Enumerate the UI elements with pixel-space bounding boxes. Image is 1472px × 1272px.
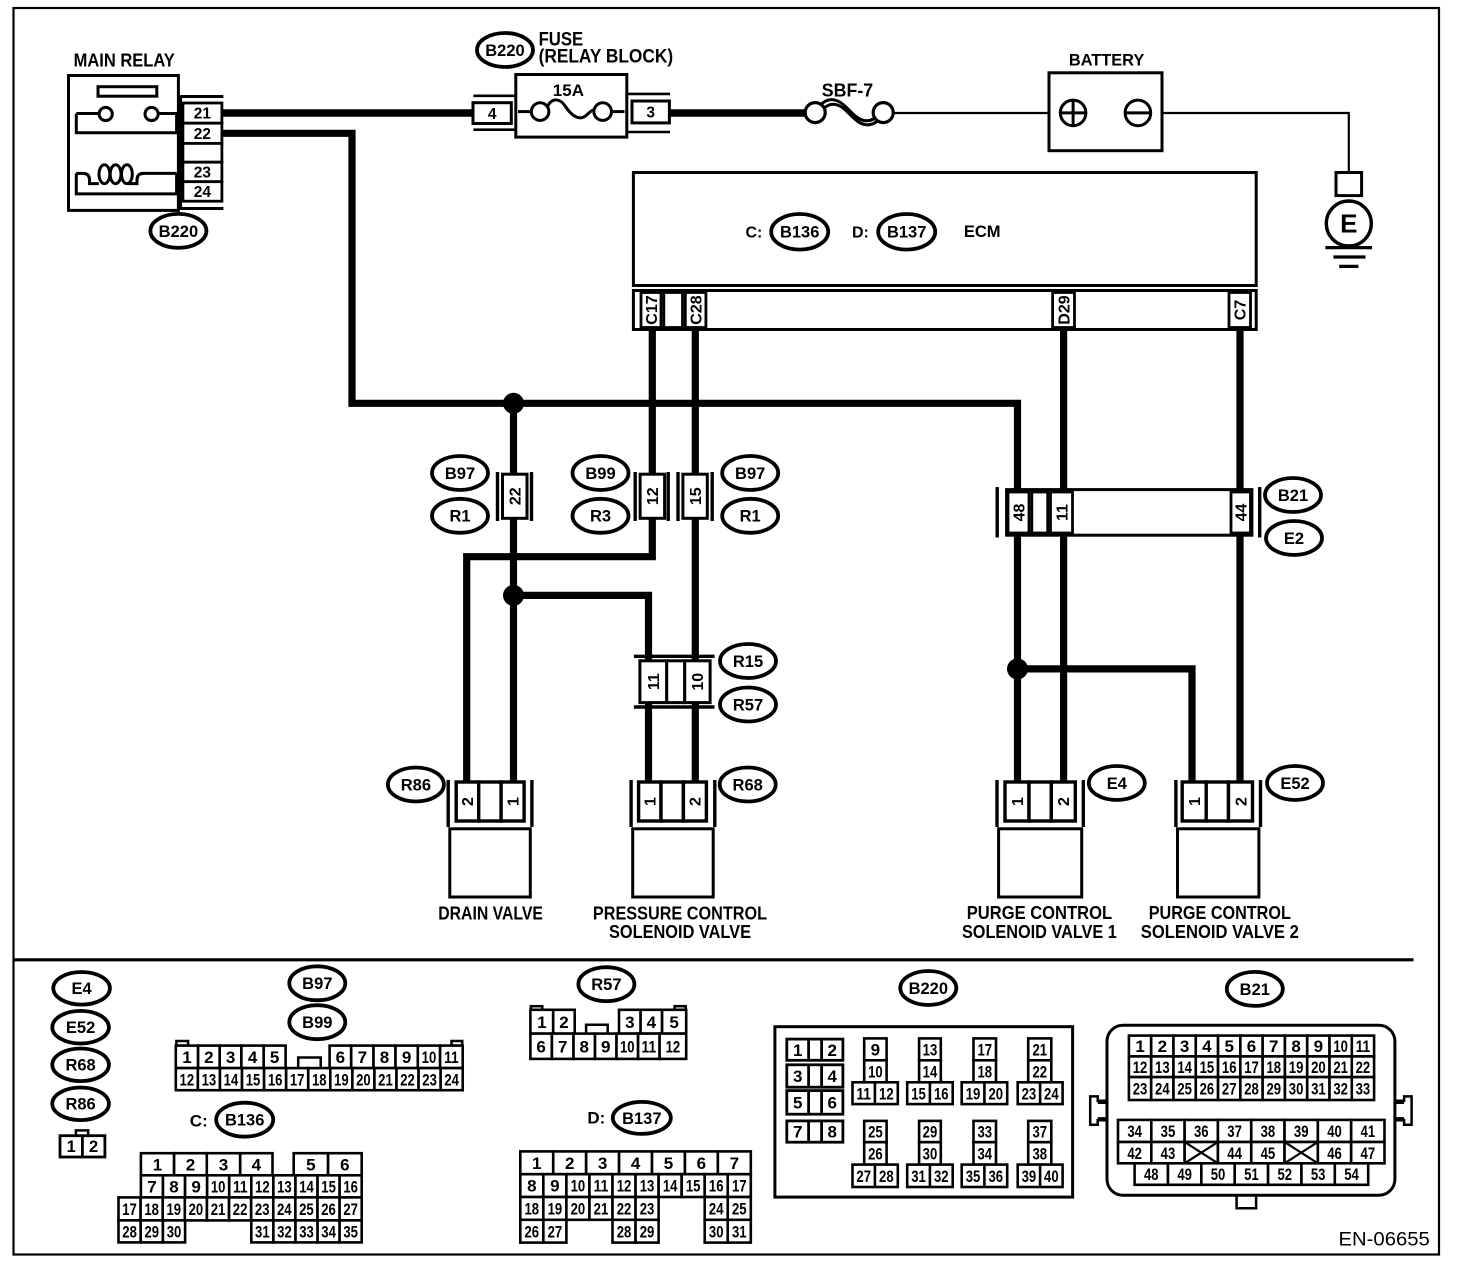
svg-text:43: 43 bbox=[1161, 1144, 1176, 1163]
svg-text:R86: R86 bbox=[401, 776, 431, 794]
svg-text:9: 9 bbox=[601, 1037, 610, 1056]
svg-text:D:: D: bbox=[852, 225, 869, 242]
svg-text:16: 16 bbox=[268, 1070, 283, 1089]
svg-text:12: 12 bbox=[879, 1084, 894, 1103]
svg-text:28: 28 bbox=[617, 1222, 632, 1241]
svg-text:R68: R68 bbox=[65, 1057, 95, 1075]
connector label E52 bbox=[1267, 766, 1323, 800]
svg-text:22: 22 bbox=[508, 487, 525, 505]
svg-text:10: 10 bbox=[620, 1037, 635, 1056]
svg-text:6: 6 bbox=[1247, 1037, 1256, 1056]
svg-text:C28: C28 bbox=[688, 295, 705, 324]
svg-text:8: 8 bbox=[1291, 1037, 1300, 1056]
svg-text:2: 2 bbox=[186, 1155, 195, 1174]
connector label R1 bbox=[722, 499, 778, 533]
svg-text:11: 11 bbox=[1054, 504, 1071, 521]
svg-text:36: 36 bbox=[1194, 1122, 1209, 1141]
wire: ECM D29 through B21 pin 11 to purge valve 1 pin 2 bbox=[1060, 329, 1067, 783]
svg-text:1: 1 bbox=[182, 1048, 191, 1067]
svg-text:PURGE CONTROL: PURGE CONTROL bbox=[1149, 902, 1291, 923]
fuse element bbox=[518, 110, 531, 113]
svg-text:36: 36 bbox=[989, 1167, 1004, 1186]
wire: relay pin 22 to main feed bbox=[222, 130, 352, 404]
svg-text:2: 2 bbox=[1056, 797, 1073, 806]
svg-text:R15: R15 bbox=[733, 653, 763, 671]
svg-text:23: 23 bbox=[1133, 1080, 1148, 1099]
svg-text:21: 21 bbox=[1032, 1040, 1047, 1059]
svg-text:R57: R57 bbox=[733, 696, 763, 714]
svg-text:5: 5 bbox=[664, 1154, 673, 1173]
svg-text:12: 12 bbox=[617, 1177, 632, 1196]
svg-text:28: 28 bbox=[879, 1167, 894, 1186]
svg-text:2: 2 bbox=[1158, 1037, 1167, 1056]
wire: SBF-7 to battery positive bbox=[893, 112, 1062, 114]
svg-text:B220: B220 bbox=[909, 980, 948, 998]
svg-text:24: 24 bbox=[1044, 1084, 1059, 1103]
inline connector pin 10 bbox=[685, 661, 710, 703]
svg-text:7: 7 bbox=[730, 1154, 739, 1173]
svg-text:24: 24 bbox=[444, 1070, 459, 1089]
svg-text:3: 3 bbox=[219, 1155, 228, 1174]
svg-text:18: 18 bbox=[144, 1200, 159, 1219]
svg-text:51: 51 bbox=[1244, 1165, 1259, 1184]
svg-text:21: 21 bbox=[594, 1200, 609, 1219]
svg-text:39: 39 bbox=[1022, 1167, 1037, 1186]
svg-text:17: 17 bbox=[732, 1177, 747, 1196]
svg-text:PURGE CONTROL: PURGE CONTROL bbox=[967, 902, 1112, 923]
svg-text:7: 7 bbox=[558, 1037, 567, 1056]
svg-text:35: 35 bbox=[343, 1223, 358, 1242]
svg-text:21: 21 bbox=[1333, 1058, 1348, 1077]
svg-text:C:: C: bbox=[190, 1111, 208, 1130]
svg-text:22: 22 bbox=[194, 126, 211, 143]
svg-text:B97: B97 bbox=[735, 465, 765, 483]
svg-text:15: 15 bbox=[321, 1177, 336, 1196]
svg-text:41: 41 bbox=[1361, 1122, 1376, 1141]
svg-text:37: 37 bbox=[1227, 1122, 1242, 1141]
svg-text:4: 4 bbox=[631, 1154, 641, 1173]
svg-text:14: 14 bbox=[224, 1070, 239, 1089]
wire: junction to connector 11 / pressure valve pin 1 bbox=[514, 592, 649, 782]
battery negative terminal bbox=[1125, 100, 1151, 126]
svg-text:12: 12 bbox=[666, 1037, 681, 1056]
svg-text:48: 48 bbox=[1144, 1165, 1159, 1184]
svg-text:26: 26 bbox=[1200, 1080, 1215, 1099]
svg-text:8: 8 bbox=[580, 1037, 589, 1056]
svg-text:27: 27 bbox=[856, 1167, 871, 1186]
svg-text:6: 6 bbox=[697, 1154, 706, 1173]
connector label B97 bbox=[722, 456, 778, 490]
svg-text:45: 45 bbox=[1261, 1144, 1276, 1163]
svg-text:B21: B21 bbox=[1240, 981, 1270, 999]
svg-text:R1: R1 bbox=[740, 508, 761, 526]
svg-text:29: 29 bbox=[640, 1222, 655, 1241]
connector label E4 bbox=[1089, 766, 1145, 800]
svg-text:C17: C17 bbox=[644, 295, 661, 324]
svg-text:8: 8 bbox=[827, 1123, 836, 1142]
svg-text:23: 23 bbox=[194, 165, 212, 182]
svg-text:47: 47 bbox=[1361, 1144, 1376, 1163]
svg-text:13: 13 bbox=[202, 1070, 217, 1089]
svg-text:44: 44 bbox=[1233, 504, 1250, 522]
svg-text:4: 4 bbox=[248, 1048, 258, 1067]
svg-text:17: 17 bbox=[122, 1200, 137, 1219]
reference label R68 bbox=[52, 1049, 109, 1082]
wire: main feed horizontal to ECM B21 pin 48 branch bbox=[348, 400, 1017, 783]
connector label R68 bbox=[720, 768, 776, 802]
drain valve connector R86 bbox=[447, 780, 450, 827]
svg-text:9: 9 bbox=[402, 1048, 411, 1067]
svg-text:17: 17 bbox=[1244, 1058, 1259, 1077]
svg-text:19: 19 bbox=[966, 1084, 981, 1103]
svg-text:3: 3 bbox=[625, 1013, 634, 1032]
svg-text:E4: E4 bbox=[1107, 775, 1128, 793]
svg-text:23: 23 bbox=[1022, 1084, 1037, 1103]
svg-text:9: 9 bbox=[1314, 1037, 1323, 1056]
svg-text:12: 12 bbox=[1133, 1058, 1148, 1077]
svg-text:28: 28 bbox=[1244, 1080, 1259, 1099]
connector B21/E2 strip bbox=[1007, 490, 1252, 536]
svg-text:29: 29 bbox=[145, 1223, 160, 1242]
connector label B97 bbox=[432, 456, 488, 490]
svg-text:10: 10 bbox=[1333, 1037, 1348, 1056]
fuse F1 box bbox=[516, 75, 627, 138]
ECM blank pin cell bbox=[664, 293, 683, 328]
svg-text:46: 46 bbox=[1327, 1144, 1342, 1163]
svg-text:50: 50 bbox=[1211, 1165, 1226, 1184]
connector face D B137 31-pin bbox=[520, 1151, 553, 1174]
connector label R1 bbox=[432, 499, 488, 533]
svg-text:26: 26 bbox=[321, 1200, 336, 1219]
svg-text:EN-06655: EN-06655 bbox=[1339, 1229, 1430, 1250]
svg-text:B136: B136 bbox=[780, 224, 819, 242]
B21 shell right tab bbox=[1395, 1096, 1412, 1124]
ECM pin D29 bbox=[1053, 293, 1075, 328]
reference label R86 bbox=[52, 1088, 109, 1121]
strip pin 48 bbox=[1008, 492, 1029, 533]
ground symbol bbox=[1325, 246, 1372, 249]
svg-text:B99: B99 bbox=[585, 465, 615, 483]
svg-text:34: 34 bbox=[977, 1145, 992, 1164]
wire: branch to purge valve 2 pin 1 bbox=[1018, 665, 1193, 783]
relay coil winding bbox=[76, 173, 176, 183]
svg-text:5: 5 bbox=[306, 1155, 315, 1174]
inline connector pin 11 bbox=[640, 661, 667, 703]
svg-text:5: 5 bbox=[1224, 1037, 1233, 1056]
svg-text:39: 39 bbox=[1294, 1122, 1309, 1141]
fuse pin 4 bracket bbox=[473, 95, 517, 98]
svg-text:18: 18 bbox=[1266, 1058, 1281, 1077]
connector face B97/B99 24-pin bbox=[176, 1041, 188, 1046]
svg-text:3: 3 bbox=[598, 1154, 607, 1173]
svg-text:9: 9 bbox=[871, 1040, 880, 1059]
svg-text:C7: C7 bbox=[1232, 300, 1249, 321]
svg-text:23: 23 bbox=[640, 1200, 655, 1219]
relay top bar bbox=[98, 87, 157, 97]
ECM connector label B136 bbox=[771, 214, 828, 250]
svg-text:B136: B136 bbox=[225, 1112, 264, 1130]
svg-text:31: 31 bbox=[1311, 1080, 1326, 1099]
svg-text:3: 3 bbox=[793, 1067, 802, 1086]
svg-text:22: 22 bbox=[1032, 1062, 1047, 1081]
svg-text:2: 2 bbox=[1233, 797, 1250, 806]
connector face B21 54-pin shell bbox=[1107, 1025, 1395, 1195]
svg-text:8: 8 bbox=[527, 1177, 536, 1196]
inline connector middle cell bbox=[667, 661, 685, 703]
strip blank cell bbox=[1032, 492, 1048, 533]
svg-text:10: 10 bbox=[571, 1177, 586, 1196]
svg-text:30: 30 bbox=[167, 1223, 182, 1242]
svg-text:16: 16 bbox=[1222, 1058, 1237, 1077]
svg-text:30: 30 bbox=[923, 1145, 938, 1164]
svg-text:17: 17 bbox=[977, 1040, 992, 1059]
battery box bbox=[1049, 73, 1162, 151]
svg-text:35: 35 bbox=[1161, 1122, 1176, 1141]
svg-text:38: 38 bbox=[1261, 1122, 1276, 1141]
svg-text:B137: B137 bbox=[887, 224, 926, 242]
svg-text:26: 26 bbox=[868, 1145, 883, 1164]
relay connector label B220 bbox=[150, 214, 206, 248]
svg-text:13: 13 bbox=[640, 1177, 655, 1196]
svg-text:MAIN RELAY: MAIN RELAY bbox=[74, 50, 176, 71]
svg-text:6: 6 bbox=[827, 1094, 836, 1113]
svg-text:25: 25 bbox=[299, 1200, 314, 1219]
svg-text:16: 16 bbox=[934, 1084, 949, 1103]
svg-text:11: 11 bbox=[594, 1177, 609, 1196]
svg-text:11: 11 bbox=[856, 1084, 871, 1103]
svg-text:6: 6 bbox=[536, 1037, 545, 1056]
svg-text:22: 22 bbox=[233, 1200, 248, 1219]
svg-text:16: 16 bbox=[709, 1177, 724, 1196]
relay pin box 24 bbox=[183, 182, 222, 202]
ECM pin C17 bbox=[641, 293, 661, 328]
svg-text:19: 19 bbox=[334, 1070, 349, 1089]
svg-text:23: 23 bbox=[422, 1070, 437, 1089]
node: junction purge valve 1 / purge valve 2 branch bbox=[1007, 658, 1028, 679]
ECM pin C28 bbox=[685, 293, 706, 328]
svg-text:49: 49 bbox=[1177, 1165, 1192, 1184]
svg-text:15: 15 bbox=[911, 1084, 926, 1103]
svg-text:20: 20 bbox=[356, 1070, 371, 1089]
svg-text:18: 18 bbox=[312, 1070, 327, 1089]
svg-text:12: 12 bbox=[255, 1177, 270, 1196]
node: junction drain/pressure branch bbox=[503, 585, 524, 606]
fuse pin 4 box bbox=[473, 103, 511, 124]
svg-text:31: 31 bbox=[732, 1222, 747, 1241]
svg-text:11: 11 bbox=[444, 1048, 459, 1067]
svg-text:32: 32 bbox=[1333, 1080, 1348, 1099]
svg-text:1: 1 bbox=[153, 1155, 162, 1174]
connector face R57 12-pin bbox=[531, 1006, 542, 1010]
svg-text:52: 52 bbox=[1277, 1165, 1292, 1184]
svg-text:R86: R86 bbox=[65, 1096, 95, 1114]
svg-text:20: 20 bbox=[989, 1084, 1004, 1103]
relay connector B220 pin strip bracket bbox=[181, 97, 224, 209]
svg-text:2: 2 bbox=[559, 1013, 568, 1032]
wire: ECM C28 down through connectors 15 and 10 to pressure valve pin 2 bbox=[692, 329, 699, 782]
battery positive terminal bbox=[1060, 100, 1086, 126]
svg-text:1: 1 bbox=[1187, 797, 1204, 806]
purge control solenoid valve 1 connector E4 bbox=[995, 780, 998, 827]
svg-text:24: 24 bbox=[1155, 1080, 1170, 1099]
svg-text:1: 1 bbox=[537, 1013, 546, 1032]
strip pin 11 bbox=[1051, 492, 1073, 533]
svg-text:2: 2 bbox=[688, 797, 705, 806]
svg-text:30: 30 bbox=[709, 1222, 724, 1241]
svg-text:15A: 15A bbox=[553, 81, 584, 100]
inline connector pin 12 bbox=[634, 472, 637, 521]
connector B21/E2 strip bracket bbox=[996, 487, 999, 538]
svg-text:21: 21 bbox=[378, 1070, 393, 1089]
svg-text:R68: R68 bbox=[733, 776, 763, 794]
svg-text:23: 23 bbox=[255, 1200, 270, 1219]
svg-text:E4: E4 bbox=[72, 980, 93, 998]
svg-text:B21: B21 bbox=[1278, 487, 1308, 505]
svg-text:4: 4 bbox=[252, 1155, 262, 1174]
wire: ECM C7 through B21 pin 44 to purge valve 2 pin 2 bbox=[1236, 329, 1243, 783]
svg-text:21: 21 bbox=[194, 106, 212, 123]
svg-text:E: E bbox=[1340, 209, 1357, 239]
svg-text:40: 40 bbox=[1044, 1167, 1059, 1186]
wire: fuse pin 3 to SBF-7 bbox=[668, 109, 806, 117]
svg-text:1: 1 bbox=[643, 797, 660, 806]
svg-text:10: 10 bbox=[211, 1177, 226, 1196]
svg-text:R3: R3 bbox=[590, 508, 611, 526]
svg-text:22: 22 bbox=[617, 1200, 632, 1219]
svg-text:13: 13 bbox=[923, 1040, 938, 1059]
B21 shell bottom tab bbox=[1237, 1195, 1257, 1208]
svg-text:B220: B220 bbox=[159, 223, 198, 241]
svg-text:21: 21 bbox=[211, 1200, 226, 1219]
fusible link SBF-7 bbox=[820, 100, 884, 121]
relay U1 box bbox=[69, 76, 179, 211]
svg-text:15: 15 bbox=[246, 1070, 261, 1089]
svg-text:24: 24 bbox=[277, 1200, 292, 1219]
svg-text:B97: B97 bbox=[445, 465, 475, 483]
svg-text:2: 2 bbox=[827, 1041, 836, 1060]
svg-text:34: 34 bbox=[321, 1223, 336, 1242]
svg-text:SOLENOID VALVE 1: SOLENOID VALVE 1 bbox=[962, 921, 1117, 942]
svg-text:C:: C: bbox=[746, 225, 763, 242]
svg-text:25: 25 bbox=[732, 1200, 747, 1219]
reference label E4 bbox=[53, 972, 110, 1005]
svg-text:25: 25 bbox=[868, 1123, 883, 1142]
svg-text:12: 12 bbox=[645, 487, 662, 505]
connector label R15 bbox=[720, 644, 776, 678]
svg-text:4: 4 bbox=[827, 1067, 837, 1086]
svg-text:14: 14 bbox=[663, 1177, 678, 1196]
svg-text:E52: E52 bbox=[66, 1019, 95, 1037]
svg-text:54: 54 bbox=[1344, 1165, 1359, 1184]
svg-text:R57: R57 bbox=[591, 976, 621, 994]
svg-text:5: 5 bbox=[669, 1013, 678, 1032]
svg-text:15: 15 bbox=[1200, 1058, 1215, 1077]
svg-text:R1: R1 bbox=[449, 508, 470, 526]
svg-text:37: 37 bbox=[1032, 1123, 1047, 1142]
relay pin box blank bbox=[183, 143, 222, 162]
svg-text:1: 1 bbox=[67, 1138, 76, 1156]
svg-text:7: 7 bbox=[147, 1177, 156, 1196]
section divider bbox=[14, 958, 1414, 961]
svg-text:DRAIN VALVE: DRAIN VALVE bbox=[438, 902, 543, 923]
svg-text:12: 12 bbox=[180, 1070, 195, 1089]
svg-text:BATTERY: BATTERY bbox=[1069, 52, 1144, 70]
svg-text:8: 8 bbox=[169, 1177, 178, 1196]
svg-text:32: 32 bbox=[277, 1223, 292, 1242]
svg-text:48: 48 bbox=[1011, 504, 1028, 522]
svg-text:5: 5 bbox=[270, 1048, 279, 1067]
svg-text:7: 7 bbox=[1269, 1037, 1278, 1056]
svg-text:38: 38 bbox=[1032, 1145, 1047, 1164]
svg-text:13: 13 bbox=[1155, 1058, 1170, 1077]
svg-text:3: 3 bbox=[646, 104, 655, 121]
connector label R86 bbox=[388, 768, 444, 802]
ground E circle bbox=[1326, 201, 1371, 246]
svg-text:D29: D29 bbox=[1056, 295, 1073, 324]
svg-text:3: 3 bbox=[1180, 1037, 1189, 1056]
wire: branch through connector 22 down to drain valve pin 1 bbox=[510, 403, 517, 782]
connector label R3 bbox=[573, 499, 629, 533]
svg-text:40: 40 bbox=[1327, 1122, 1342, 1141]
svg-text:SOLENOID VALVE: SOLENOID VALVE bbox=[609, 921, 751, 942]
svg-text:B99: B99 bbox=[302, 1014, 332, 1032]
svg-text:7: 7 bbox=[793, 1123, 802, 1142]
svg-text:11: 11 bbox=[233, 1177, 248, 1196]
wire: ECM C17 down through connector 12, across, down to drain valve pin 2 bbox=[467, 329, 656, 782]
svg-text:1: 1 bbox=[1135, 1037, 1144, 1056]
svg-text:1: 1 bbox=[793, 1041, 802, 1060]
reference label B220 bbox=[900, 971, 956, 1005]
inline connector R15/R57 bracket bbox=[634, 655, 715, 658]
reference label B21 bbox=[1227, 972, 1283, 1006]
strip pin 44 bbox=[1231, 492, 1251, 533]
relay pin box 23 bbox=[183, 162, 222, 182]
reference label B99 bbox=[289, 1005, 345, 1039]
svg-text:24: 24 bbox=[194, 184, 212, 201]
ECM pin header strip bbox=[633, 291, 1256, 330]
svg-text:2: 2 bbox=[89, 1138, 98, 1156]
purge control solenoid valve 2 connector E52 bbox=[1174, 780, 1177, 827]
svg-text:D:: D: bbox=[587, 1109, 605, 1128]
svg-text:2: 2 bbox=[204, 1048, 213, 1067]
connector label B99 bbox=[573, 456, 629, 490]
node: junction main feed / drain valve branch bbox=[503, 393, 524, 414]
svg-text:1: 1 bbox=[1010, 797, 1027, 806]
svg-text:3: 3 bbox=[226, 1048, 235, 1067]
svg-text:22: 22 bbox=[400, 1070, 415, 1089]
B21 shell left tab bbox=[1090, 1096, 1107, 1124]
relay contact leads bbox=[76, 112, 99, 115]
svg-text:18: 18 bbox=[525, 1200, 540, 1219]
svg-text:B137: B137 bbox=[622, 1110, 661, 1128]
svg-text:E2: E2 bbox=[1284, 530, 1304, 548]
svg-text:SOLENOID VALVE 2: SOLENOID VALVE 2 bbox=[1141, 921, 1299, 942]
svg-text:6: 6 bbox=[340, 1155, 349, 1174]
relay contact circle right bbox=[145, 107, 158, 120]
svg-text:31: 31 bbox=[255, 1223, 270, 1242]
ground E terminal box bbox=[1336, 173, 1362, 196]
reference label E52 bbox=[52, 1011, 109, 1044]
svg-text:B220: B220 bbox=[485, 42, 524, 60]
svg-text:17: 17 bbox=[290, 1070, 305, 1089]
pressure control solenoid valve connector R68 bbox=[629, 780, 632, 827]
svg-text:27: 27 bbox=[343, 1200, 358, 1219]
svg-text:27: 27 bbox=[548, 1222, 563, 1241]
svg-text:22: 22 bbox=[1356, 1058, 1371, 1077]
svg-text:30: 30 bbox=[1289, 1080, 1304, 1099]
fuse pin 3 bracket bbox=[627, 93, 670, 96]
svg-text:42: 42 bbox=[1127, 1144, 1142, 1163]
